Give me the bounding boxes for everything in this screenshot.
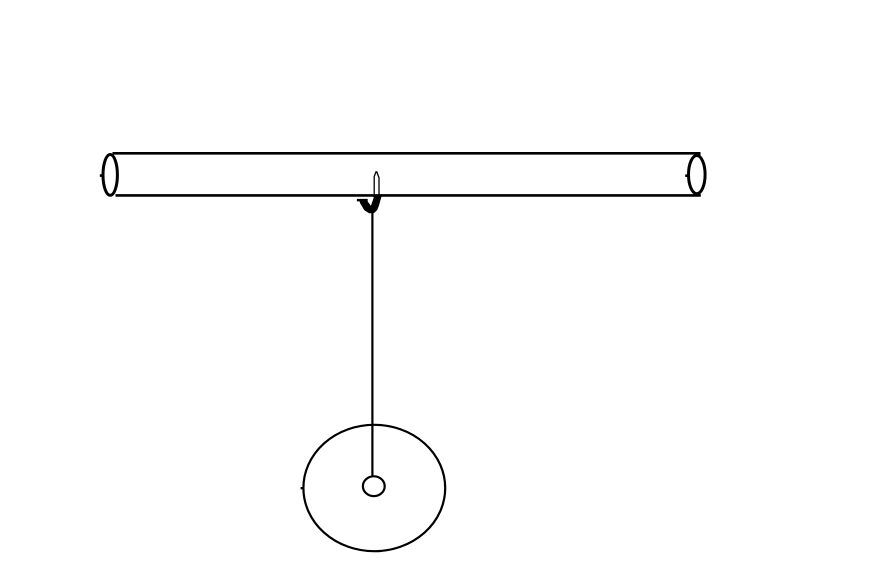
disk hub hole bbox=[363, 476, 385, 496]
rod right end ellipse bbox=[689, 156, 706, 194]
rod right top joint blob bbox=[694, 152, 701, 156]
rod left end nub bbox=[100, 174, 103, 177]
hook below rod bbox=[357, 195, 382, 213]
string bbox=[371, 212, 373, 477]
pin (needle) through rod bbox=[374, 171, 379, 197]
rod right end nub bbox=[685, 174, 688, 177]
disk left nub bbox=[301, 487, 304, 489]
rod left end ellipse bbox=[103, 155, 117, 196]
rod bottom line bbox=[116, 194, 701, 197]
rod top line bbox=[113, 152, 700, 155]
disk bbox=[303, 425, 445, 551]
